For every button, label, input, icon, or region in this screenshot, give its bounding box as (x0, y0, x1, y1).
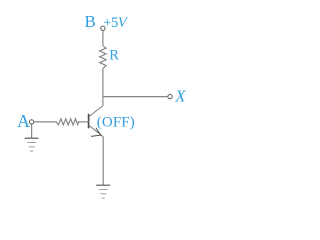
wire A terminal down to ground (31, 124, 33, 137)
wire B terminal to resistor R (102, 31, 104, 46)
svg-text:A: A (17, 111, 30, 131)
emitter arrow (91, 128, 101, 136)
svg-text:+5V: +5V (103, 15, 129, 31)
transistor Q1 (NPN) (89, 106, 104, 137)
collector lead (89, 106, 103, 117)
svg-text:B: B (85, 12, 96, 31)
wire A terminal to base resistor (34, 121, 56, 123)
svg-text:X: X (174, 87, 186, 106)
resistor (base) (56, 119, 78, 125)
ground (emitter) (96, 185, 110, 198)
base bar (88, 114, 90, 129)
wire emitter to ground (102, 137, 104, 185)
terminal X (168, 94, 172, 98)
wire node to X terminal (103, 96, 167, 98)
svg-text:(OFF): (OFF) (97, 114, 135, 130)
ground (input A) (25, 138, 39, 151)
emitter lead (89, 125, 104, 137)
terminal A (29, 120, 33, 124)
wire base resistor to transistor base (78, 121, 89, 123)
resistor R (100, 46, 106, 69)
svg-text:R: R (109, 48, 119, 64)
wire resistor R to collector bend (node X junction) (102, 69, 104, 106)
terminal B (101, 26, 105, 30)
